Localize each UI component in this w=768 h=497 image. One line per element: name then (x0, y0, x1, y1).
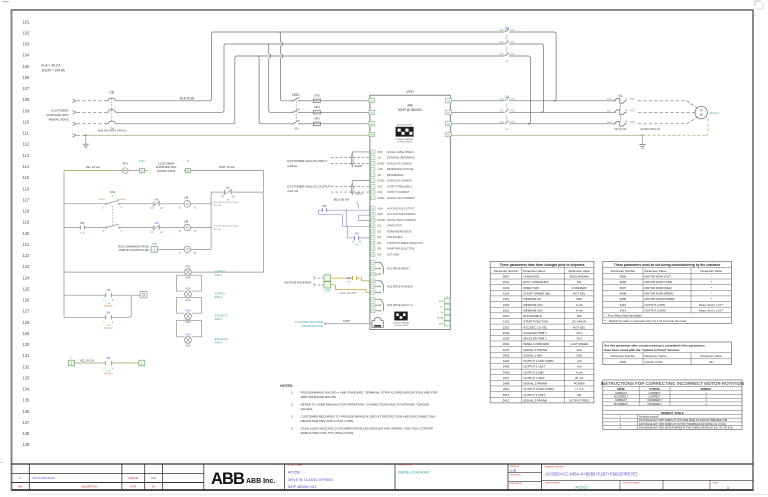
parameter table: after commissioning local lock (603, 342, 732, 365)
svg-text:3L2: 3L2 (499, 40, 504, 44)
svg-text:OL: OL (618, 94, 622, 98)
svg-text:MEANS PER NEC AND LOCAL CODE.: MEANS PER NEC AND LOCAL CODE. (301, 419, 355, 423)
svg-text:126: 126 (23, 298, 31, 303)
ABB logo (211, 470, 275, 488)
svg-text:DIGITAL INPUT COMMON: DIGITAL INPUT COMMON (387, 219, 416, 222)
svg-text:MINIMUM AO1: MINIMUM AO1 (523, 303, 543, 307)
svg-text:1FU: 1FU (314, 93, 320, 97)
VFD input terminals U1 V1 W1 PE (369, 99, 375, 137)
svg-text:120: 120 (23, 231, 31, 236)
fan parallel branch boxes (177, 275, 202, 337)
selector switch SS1 (BYPASS side) (103, 206, 123, 233)
svg-text:131: 131 (23, 353, 31, 358)
svg-text:1504: 1504 (503, 303, 510, 307)
svg-text:DIRECTION: DIRECTION (523, 286, 539, 290)
svg-text:119: 119 (23, 220, 30, 225)
svg-text:BYPASS: BYPASS (650, 388, 660, 391)
svg-text:16GA YELLOW: 16GA YELLOW (340, 292, 357, 295)
svg-text:OUTPUT 2 MIN: OUTPUT 2 MIN (645, 303, 665, 307)
wire: fan rung (64, 271, 264, 273)
svg-text:CONSULT MANUAL: CONSULT MANUAL (395, 138, 414, 141)
svg-text:4 mA: 4 mA (576, 303, 583, 307)
svg-text:have been saved with the "Uplo: have been saved with the "Upload to Pane… (604, 348, 679, 352)
svg-text:WIRE RATED FOR 75°C INSULATION: WIRE RATED FOR 75°C INSULATION. (301, 431, 355, 435)
wire: bus drop to DISC pole 2 (hop) (267, 44, 293, 112)
svg-text:DI2: DI2 (377, 231, 381, 234)
svg-text:MOTOR NOM VOLT: MOTOR NOM VOLT (645, 275, 672, 279)
svg-text:DI4: DI4 (377, 242, 381, 245)
contact 2M interlock (NC) (150, 198, 163, 211)
svg-text:CHECKED BY: CHECKED BY (510, 475, 522, 477)
svg-text:ACS550-CC-045A-4+B055+F267+P90: ACS550-CC-045A-4+B055+F267+P902(FIREYE) (545, 472, 638, 477)
svg-text:SHEET: SHEET (713, 483, 720, 485)
wire: VFD output lines (452, 101, 614, 124)
svg-text:3Ø: 3Ø (700, 113, 703, 116)
svg-text:1.: 1. (291, 390, 294, 394)
svg-text:9905: 9905 (620, 275, 627, 279)
bottom 2M signal rung (69, 357, 145, 366)
scan shadow line (28, 494, 768, 496)
svg-text:DRAWN BY: DRAWN BY (510, 465, 520, 468)
svg-text:111: 111 (23, 131, 30, 136)
svg-text:103: 103 (577, 348, 582, 352)
svg-text:480VAC 60HZ: 480VAC 60HZ (49, 118, 69, 122)
svg-text:106: 106 (23, 75, 31, 80)
svg-text:2203: 2203 (503, 337, 510, 341)
svg-text:AGND: AGND (377, 197, 384, 200)
svg-text:LOCAL LOCK: LOCAL LOCK (645, 360, 663, 364)
contact 2M (bottom signal) (103, 356, 114, 376)
svg-text:129: 129 (23, 331, 31, 336)
svg-text:OUTPUT 1 DSP FORM: OUTPUT 1 DSP FORM (523, 359, 554, 363)
wire: coil merge bracket (210, 192, 213, 249)
svg-text:NO 108 109 110 1L1/134: NO 108 109 110 1L1/134 (214, 202, 239, 204)
svg-text:DESCRIPTION: DESCRIPTION (398, 464, 413, 466)
svg-text:LAST SPEED: LAST SPEED (570, 342, 588, 346)
svg-text:130: 130 (23, 342, 31, 347)
svg-text:CORRECT: CORRECT (615, 399, 627, 402)
svg-text:MOTOR NOM FREQ: MOTOR NOM FREQ (645, 286, 673, 290)
svg-text:No action required: No action required (639, 416, 659, 419)
ground symbol (service) (83, 135, 89, 148)
svg-text:FAN 2: FAN 2 (215, 295, 223, 299)
svg-text:1TB: 1TB (106, 325, 111, 327)
svg-text:REV: REV (18, 487, 23, 489)
svg-text:9906: 9906 (620, 280, 627, 284)
connector plug (140, 291, 147, 298)
svg-text:DRIVE KEYPAD: DRIVE KEYPAD (302, 324, 323, 328)
contact CR (NO) rung3 (80, 221, 86, 234)
svg-text:SIGNAL CABLE SHIELD: SIGNAL CABLE SHIELD (387, 151, 414, 154)
motor rotation instruction table (601, 380, 745, 430)
svg-text:2M: 2M (106, 310, 111, 314)
svg-text:3413: 3413 (503, 398, 510, 402)
svg-text:Parameter Number: Parameter Number (611, 269, 636, 273)
svg-text:DATE PREPARED: DATE PREPARED (545, 482, 561, 485)
overload relay OL (607, 94, 635, 131)
notes (280, 384, 438, 435)
svg-text:ENGLISH(AM): ENGLISH(AM) (570, 275, 589, 279)
svg-text:139: 139 (23, 442, 31, 447)
svg-text:3412: 3412 (503, 393, 510, 397)
svg-text:OUTPUT CURRENT: OUTPUT CURRENT (387, 191, 410, 194)
svg-text:30.0: 30.0 (576, 337, 582, 341)
fold mark left (0, 461, 3, 463)
note FLA/SCCR (42, 64, 66, 73)
svg-text:TB-AUX: TB-AUX (104, 305, 113, 308)
svg-text:OUTPUT 2 MAX: OUTPUT 2 MAX (645, 308, 666, 312)
parameter table: changed prior to shipment (490, 261, 594, 402)
svg-text:2201: 2201 (503, 325, 510, 329)
svg-text:CONSTANT SPEED SELECTION: CONSTANT SPEED SELECTION (387, 242, 423, 245)
svg-text:9909: 9909 (620, 297, 627, 301)
svg-text:123: 123 (23, 264, 31, 269)
svg-text:0.5A: 0.5A (185, 277, 190, 280)
wire: L1 CB to bus (118, 32, 555, 101)
svg-text:3002: 3002 (503, 342, 510, 346)
svg-text:FORWARD: FORWARD (572, 286, 587, 290)
VFD output terminals U2 V2 W2 PE (446, 99, 452, 137)
svg-text:124: 124 (23, 275, 31, 280)
svg-text:#1 AWG 600V-LD: #1 AWG 600V-LD (641, 128, 661, 131)
svg-text:BY: BY (152, 487, 156, 489)
svg-text:DRIVE W/ CLASSIC BYPASS: DRIVE W/ CLASSIC BYPASS (288, 478, 334, 482)
svg-text:1TB: 1TB (347, 281, 352, 283)
svg-text:20%: 20% (576, 353, 582, 357)
label BLK 8 GA (180, 96, 195, 100)
svg-text:PROGRAMMING MACRO = ABB STANDA: PROGRAMMING MACRO = ABB STANDARD. TERMIN… (301, 390, 439, 394)
svg-text:112: 112 (23, 142, 30, 147)
svg-text:Parameter Value: Parameter Value (701, 269, 723, 273)
svg-text:ON: ON (709, 360, 713, 364)
svg-text:DI3: DI3 (577, 314, 582, 318)
svg-text:INCORRECT: INCORRECT (647, 399, 662, 402)
svg-text:0.5A: 0.5A (185, 345, 190, 348)
svg-text:EXTERNAL REFERENCE: EXTERNAL REFERENCE (387, 157, 415, 160)
wire: dashed feeds to CB (77, 101, 107, 136)
svg-text:ACC/DEC 1/2 SEL: ACC/DEC 1/2 SEL (523, 325, 547, 329)
terminal 1 (120V hot) (139, 160, 145, 173)
svg-text:CAT5: CAT5 (343, 319, 351, 323)
svg-text:20 mA: 20 mA (575, 376, 583, 380)
comm terminals J2 (437, 297, 450, 326)
svg-text:1M: 1M (184, 196, 189, 200)
svg-text:DI1: DI1 (377, 225, 381, 228)
svg-text:SIGNAL 1 PARAM: SIGNAL 1 PARAM (523, 348, 547, 352)
svg-text:1L2: 1L2 (607, 108, 612, 112)
svg-text:NOT USED: NOT USED (387, 254, 400, 257)
svg-text:127: 127 (23, 309, 31, 314)
svg-text:AGND: AGND (377, 162, 384, 165)
parameter table: set during commissioning (603, 261, 732, 323)
svg-text:DESCRIPTION: DESCRIPTION (82, 487, 98, 489)
relay RO3 (371, 297, 414, 312)
svg-text:4-20ma: 4-20ma (287, 164, 298, 168)
svg-text:ACCELER TIME 1: ACCELER TIME 1 (523, 331, 547, 335)
svg-text:* - From Motor Data Nameplate: * - From Motor Data Nameplate (604, 314, 642, 318)
svg-text:2M: 2M (106, 356, 111, 360)
svg-text:FN4: FN4 (185, 332, 191, 336)
svg-text:1TB: 1TB (106, 371, 111, 373)
run command terminal (118, 243, 157, 252)
svg-text:OUTPUT 1 MAX: OUTPUT 1 MAX (523, 376, 544, 380)
contact 2M aux (status) (103, 310, 114, 330)
svg-text:ABB STANDARD MACRO.: ABB STANDARD MACRO. (301, 395, 338, 399)
svg-text:Parameter Name: Parameter Name (645, 269, 667, 273)
svg-text:SHLD: SHLD (355, 164, 362, 168)
svg-text:3.: 3. (291, 414, 294, 418)
svg-text:A-: A- (441, 311, 443, 314)
svg-text:138: 138 (23, 431, 31, 436)
svg-text:EXCHANGE ANY TWO MOTOR WIRES A: EXCHANGE ANY TWO MOTOR WIRES AT THE OVER… (639, 427, 733, 430)
svg-text:ANALOG IN COMMON: ANALOG IN COMMON (387, 162, 412, 165)
contact 2M aux (NO) (347, 276, 357, 283)
svg-text:+10V: +10V (377, 168, 383, 171)
svg-text:30.0: 30.0 (576, 331, 582, 335)
relay contact CR (NO) (322, 204, 327, 212)
svg-text:APPROVED BY: APPROVED BY (510, 482, 524, 485)
svg-text:+/- 0.0: +/- 0.0 (575, 387, 584, 391)
svg-text:2T1: 2T1 (510, 28, 515, 32)
svg-text:101: 101 (23, 19, 31, 24)
svg-text:1TB3: 1TB3 (324, 288, 331, 292)
svg-text:NOTES:: NOTES: (280, 384, 293, 388)
svg-text:CR: CR (186, 249, 190, 252)
svg-text:INITIAL REVISION: INITIAL REVISION (33, 476, 56, 480)
svg-text:OUTPUT FREQ: OUTPUT FREQ (569, 398, 590, 402)
svg-text:6T3: 6T3 (630, 120, 635, 124)
svg-text:3L1: 3L1 (499, 28, 504, 32)
relay RO1 (371, 261, 410, 276)
svg-text:DI5: DI5 (377, 248, 381, 251)
svg-text:2M: 2M (505, 27, 510, 31)
fuse 2FU (313, 105, 369, 114)
fan FN4 (185, 332, 229, 347)
svg-text:04/25/16: 04/25/16 (575, 486, 588, 490)
svg-text:SHLD: SHLD (355, 191, 362, 195)
fan FN1 (185, 265, 226, 280)
svg-text:102: 102 (23, 30, 31, 35)
svg-text:FAN 2: FAN 2 (215, 341, 223, 345)
svg-text:OUTPUT 1 UNIT: OUTPUT 1 UNIT (523, 365, 545, 369)
svg-text:MOTOR NOM POWER: MOTOR NOM POWER (645, 297, 675, 301)
DIP switch comm termination (392, 312, 409, 327)
svg-text:SIGNAL 3 PARAM: SIGNAL 3 PARAM (523, 398, 547, 402)
svg-text:REFER TO USER MANUAL FOR OPERA: REFER TO USER MANUAL FOR OPERATION, CONN… (301, 402, 430, 406)
motor running customer terminals (285, 275, 332, 293)
RJ45 keypad jack (372, 318, 383, 328)
svg-text:4.: 4. (291, 426, 294, 430)
svg-text:3411: 3411 (503, 387, 510, 391)
svg-text:FOR SETTINGS: FOR SETTINGS (397, 142, 412, 144)
svg-text:CUSTOMER REQUIRED TO PROVIDE B: CUSTOMER REQUIRED TO PROVIDE BRANCH CIRC… (301, 414, 437, 418)
svg-text:104: 104 (23, 53, 31, 58)
customer analog output (287, 184, 369, 193)
svg-text:1003: 1003 (503, 286, 510, 290)
svg-text:3402: 3402 (503, 353, 510, 357)
wire: bus drop to DISC pole 1 (hops) (279, 32, 293, 101)
svg-text:FN2: FN2 (185, 287, 191, 291)
svg-text:1L3: 1L3 (607, 120, 612, 124)
svg-text:1L2: 1L2 (499, 108, 504, 112)
svg-text:4 mA: 4 mA (576, 370, 583, 374)
shield SHLD (input) (351, 152, 369, 168)
svg-text:118: 118 (23, 209, 30, 214)
svg-text:DI1: DI1 (577, 280, 582, 284)
svg-text:REVISION NUMBER: REVISION NUMBER (623, 483, 641, 485)
wire: 2M aux status rung (64, 316, 129, 318)
svg-text:1TB1: 1TB1 (139, 160, 145, 163)
svg-text:3FU: 3FU (314, 116, 320, 120)
svg-text:113: 113 (23, 153, 30, 158)
svg-text:PROJECT NAME: PROJECT NAME (286, 463, 303, 466)
svg-text:1001: 1001 (503, 280, 510, 284)
svg-text:6T3: 6T3 (510, 52, 515, 56)
svg-text:9907: 9907 (620, 286, 627, 290)
svg-text:INSTRUCTIONS FOR CORRECTING IN: INSTRUCTIONS FOR CORRECTING INCORRECT MO… (601, 381, 745, 386)
svg-text:CORRECT: CORRECT (615, 392, 627, 395)
svg-text:1M: 1M (355, 231, 360, 235)
svg-text:Parameter Number: Parameter Number (494, 269, 519, 273)
svg-text:RO2 DRIVE RUNNING: RO2 DRIVE RUNNING (387, 286, 413, 289)
wire: +24V to CR (319, 202, 370, 211)
crossref 1M (214, 202, 239, 207)
fuse 4FU (123, 162, 129, 174)
svg-text:SCR: SCR (439, 301, 444, 303)
svg-text:OUTPUT 1 MIN: OUTPUT 1 MIN (523, 370, 543, 374)
svg-text:RUN ENABLE: RUN ENABLE (387, 236, 403, 239)
svg-text:REMEDY: REMEDY (701, 388, 712, 391)
svg-text:3405: 3405 (503, 365, 510, 369)
svg-text:ABB Inc.: ABB Inc. (246, 478, 275, 485)
svg-text:+24V: +24V (377, 208, 383, 211)
wire: rung 1M coil (64, 203, 211, 205)
svg-text:NOT SEL: NOT SEL (573, 325, 586, 329)
svg-text:FORWARD/REVERSE: FORWARD/REVERSE (387, 231, 412, 234)
svg-text:AI DIP SWITCH: AI DIP SWITCH (397, 124, 412, 127)
svg-text:ANALOG OUT COMMON: ANALOG OUT COMMON (387, 197, 415, 200)
contactor 1M drive contacts (499, 95, 515, 131)
svg-text:1TB: 1TB (355, 245, 360, 247)
ladder line numbers 101-139 (23, 19, 31, 447)
wire: control right rail (262, 171, 264, 273)
svg-text:128: 128 (23, 320, 31, 325)
wire: rung 2M coil (64, 227, 211, 229)
svg-text:RUN ENABLE: RUN ENABLE (523, 314, 542, 318)
svg-text:103: 103 (23, 42, 31, 47)
svg-text:2M: 2M (347, 276, 352, 280)
svg-text:HP: HP (577, 393, 581, 397)
wire: CR to DI1 (319, 209, 370, 226)
svg-text:4T2: 4T2 (510, 108, 515, 112)
svg-text:109: 109 (23, 108, 31, 113)
title block fields (285, 463, 754, 490)
svg-text:START/STOP: START/STOP (387, 225, 402, 228)
svg-text:YEL 16 GA: YEL 16 GA (86, 165, 100, 169)
svg-text:** - Multiply the value in par: ** - Multiply the value in parameter 34.… (604, 319, 686, 323)
svg-text:9908: 9908 (620, 291, 627, 295)
svg-text:2202: 2202 (503, 331, 510, 335)
svg-text:107: 107 (23, 86, 31, 91)
svg-text:INCORRECT: INCORRECT (647, 403, 662, 406)
svg-text:INCORRECT: INCORRECT (614, 396, 629, 399)
svg-text:ACS550: ACS550 (288, 470, 301, 474)
fan FN3 (185, 309, 229, 324)
svg-text:A/A: A/A (577, 365, 582, 369)
wire: rung CR coil (157, 248, 211, 250)
fan FN2 (185, 287, 226, 302)
coil 2M (179, 219, 197, 233)
svg-text:WHT 16 GA: WHT 16 GA (219, 165, 235, 169)
coil 1M (179, 196, 197, 210)
svg-text:DASH LINES INDICATE CUSTOMER I: DASH LINES INDICATE CUSTOMER INSTALLED D… (301, 426, 434, 430)
wire: OL interlock line (211, 191, 261, 193)
svg-text:FOR SETTINGS: FOR SETTINGS (394, 325, 409, 327)
svg-text:2.: 2. (291, 402, 294, 406)
svg-text:REFERENCE VOLTAGE: REFERENCE VOLTAGE (387, 168, 414, 171)
svg-text:3408: 3408 (503, 382, 510, 386)
svg-text:120VAC 60HZ: 120VAC 60HZ (157, 169, 176, 173)
svg-text:SET @ 42A: SET @ 42A (614, 128, 627, 131)
svg-text:DRIVE: DRIVE (98, 199, 105, 201)
wire: L2 CB to bus (118, 44, 542, 112)
relay RO2 (371, 279, 413, 294)
wire: 2M to motor line drops (528, 32, 556, 125)
svg-text:3407: 3407 (503, 376, 510, 380)
svg-text:4 mA: 4 mA (576, 308, 583, 312)
svg-text:AUX VOLTAGE COMMON: AUX VOLTAGE COMMON (387, 213, 416, 216)
svg-text:CJR: CJR (151, 477, 156, 480)
svg-text:DRAWING NUMBER: DRAWING NUMBER (545, 465, 564, 468)
svg-text:INCORRECT: INCORRECT (614, 403, 629, 406)
svg-text:OUTPUT 2 UNIT: OUTPUT 2 UNIT (523, 393, 545, 397)
svg-text:30HP 480VAC N12: 30HP 480VAC N12 (288, 485, 317, 489)
svg-text:NO 132 133 134 1L6/136: NO 132 133 134 1L6/136 (214, 226, 239, 228)
svg-text:13 14: 13 14 (80, 233, 86, 235)
DIP switch AI config (395, 124, 414, 144)
VFD control terminal strip X1 (371, 150, 423, 257)
shield SHLD (output) (351, 181, 369, 196)
wire: 1M aux status rung (64, 295, 140, 317)
svg-text:AGND: AGND (377, 180, 384, 183)
fuse 1FU (313, 93, 369, 102)
svg-text:CUSTOMER ANALOG OUTPUT: CUSTOMER ANALOG OUTPUT (287, 184, 331, 188)
svg-text:105: 105 (23, 64, 31, 69)
svg-text:FAN 1: FAN 1 (215, 273, 223, 277)
svg-text:DRIVE: DRIVE (617, 388, 625, 391)
svg-text:A: A (20, 476, 22, 480)
svg-text:Parameter Value: Parameter Value (701, 354, 723, 358)
svg-text:108: 108 (23, 97, 31, 102)
svg-text:CJR: CJR (510, 469, 517, 473)
svg-text:2T1: 2T1 (510, 97, 515, 101)
svg-text:TB-AUX: TB-AUX (104, 327, 113, 330)
svg-text:EXCHANGE ANY TWO WIRES AT OUTP: EXCHANGE ANY TWO WIRES AT OUTPUT TERMINA… (639, 423, 726, 426)
svg-text:ANALOG IN COMMON: ANALOG IN COMMON (387, 180, 412, 183)
svg-text:BLK 8 GA: BLK 8 GA (180, 96, 195, 100)
svg-text:Parameter Value: Parameter Value (568, 269, 590, 273)
wire: bus drop to DISC pole 3 (257, 56, 293, 124)
svg-text:DC MAGN: DC MAGN (572, 320, 586, 324)
svg-text:1L1: 1L1 (607, 97, 612, 101)
svg-text:CUSTOMER ANALOG INPUT: CUSTOMER ANALOG INPUT (287, 159, 327, 163)
svg-text:OL: OL (226, 186, 230, 190)
ground symbol (motor side) (639, 134, 645, 148)
label customer supplied 1PH (148, 161, 184, 174)
svg-text:AGND: AGND (437, 317, 444, 320)
svg-text:2T1: 2T1 (630, 97, 635, 101)
svg-text:1TB: 1TB (106, 303, 111, 305)
